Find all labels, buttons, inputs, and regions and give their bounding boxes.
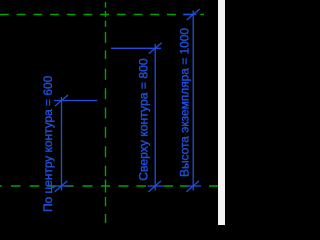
dimension D2 witness top: [111, 47, 161, 49]
dimension D3 witness bottom: [186, 185, 202, 187]
reference plane vertical center: [105, 2, 107, 223]
dimension D1 tick top: [55, 95, 68, 106]
dimension D2 line: [154, 44, 156, 191]
dimension D1 witness bottom: [54, 185, 70, 187]
scrollbar strip right: [218, 0, 225, 225]
dimension D3 line: [192, 11, 194, 191]
svg-text:По центру контура = 600: По центру контура = 600: [41, 75, 55, 212]
dimension D2 tick bottom: [148, 181, 161, 192]
dimension D2 tick top: [149, 43, 162, 54]
dimension D3 tick bottom: [186, 181, 199, 192]
dimension D1 line: [61, 97, 63, 191]
dimension D1 tick bottom: [55, 181, 68, 192]
reference plane horizontal bottom: [0, 185, 218, 187]
reference plane horizontal top: [0, 14, 204, 16]
dimension D2 witness bottom: [148, 185, 164, 187]
dimension D3 witness top: [183, 14, 197, 16]
svg-text:Высота экземпляра = 1000: Высота экземпляра = 1000: [178, 28, 192, 177]
dimension D3 tick top: [187, 9, 200, 20]
svg-text:Сверху контура = 800: Сверху контура = 800: [136, 58, 150, 181]
dimension D1 witness top: [54, 100, 97, 102]
